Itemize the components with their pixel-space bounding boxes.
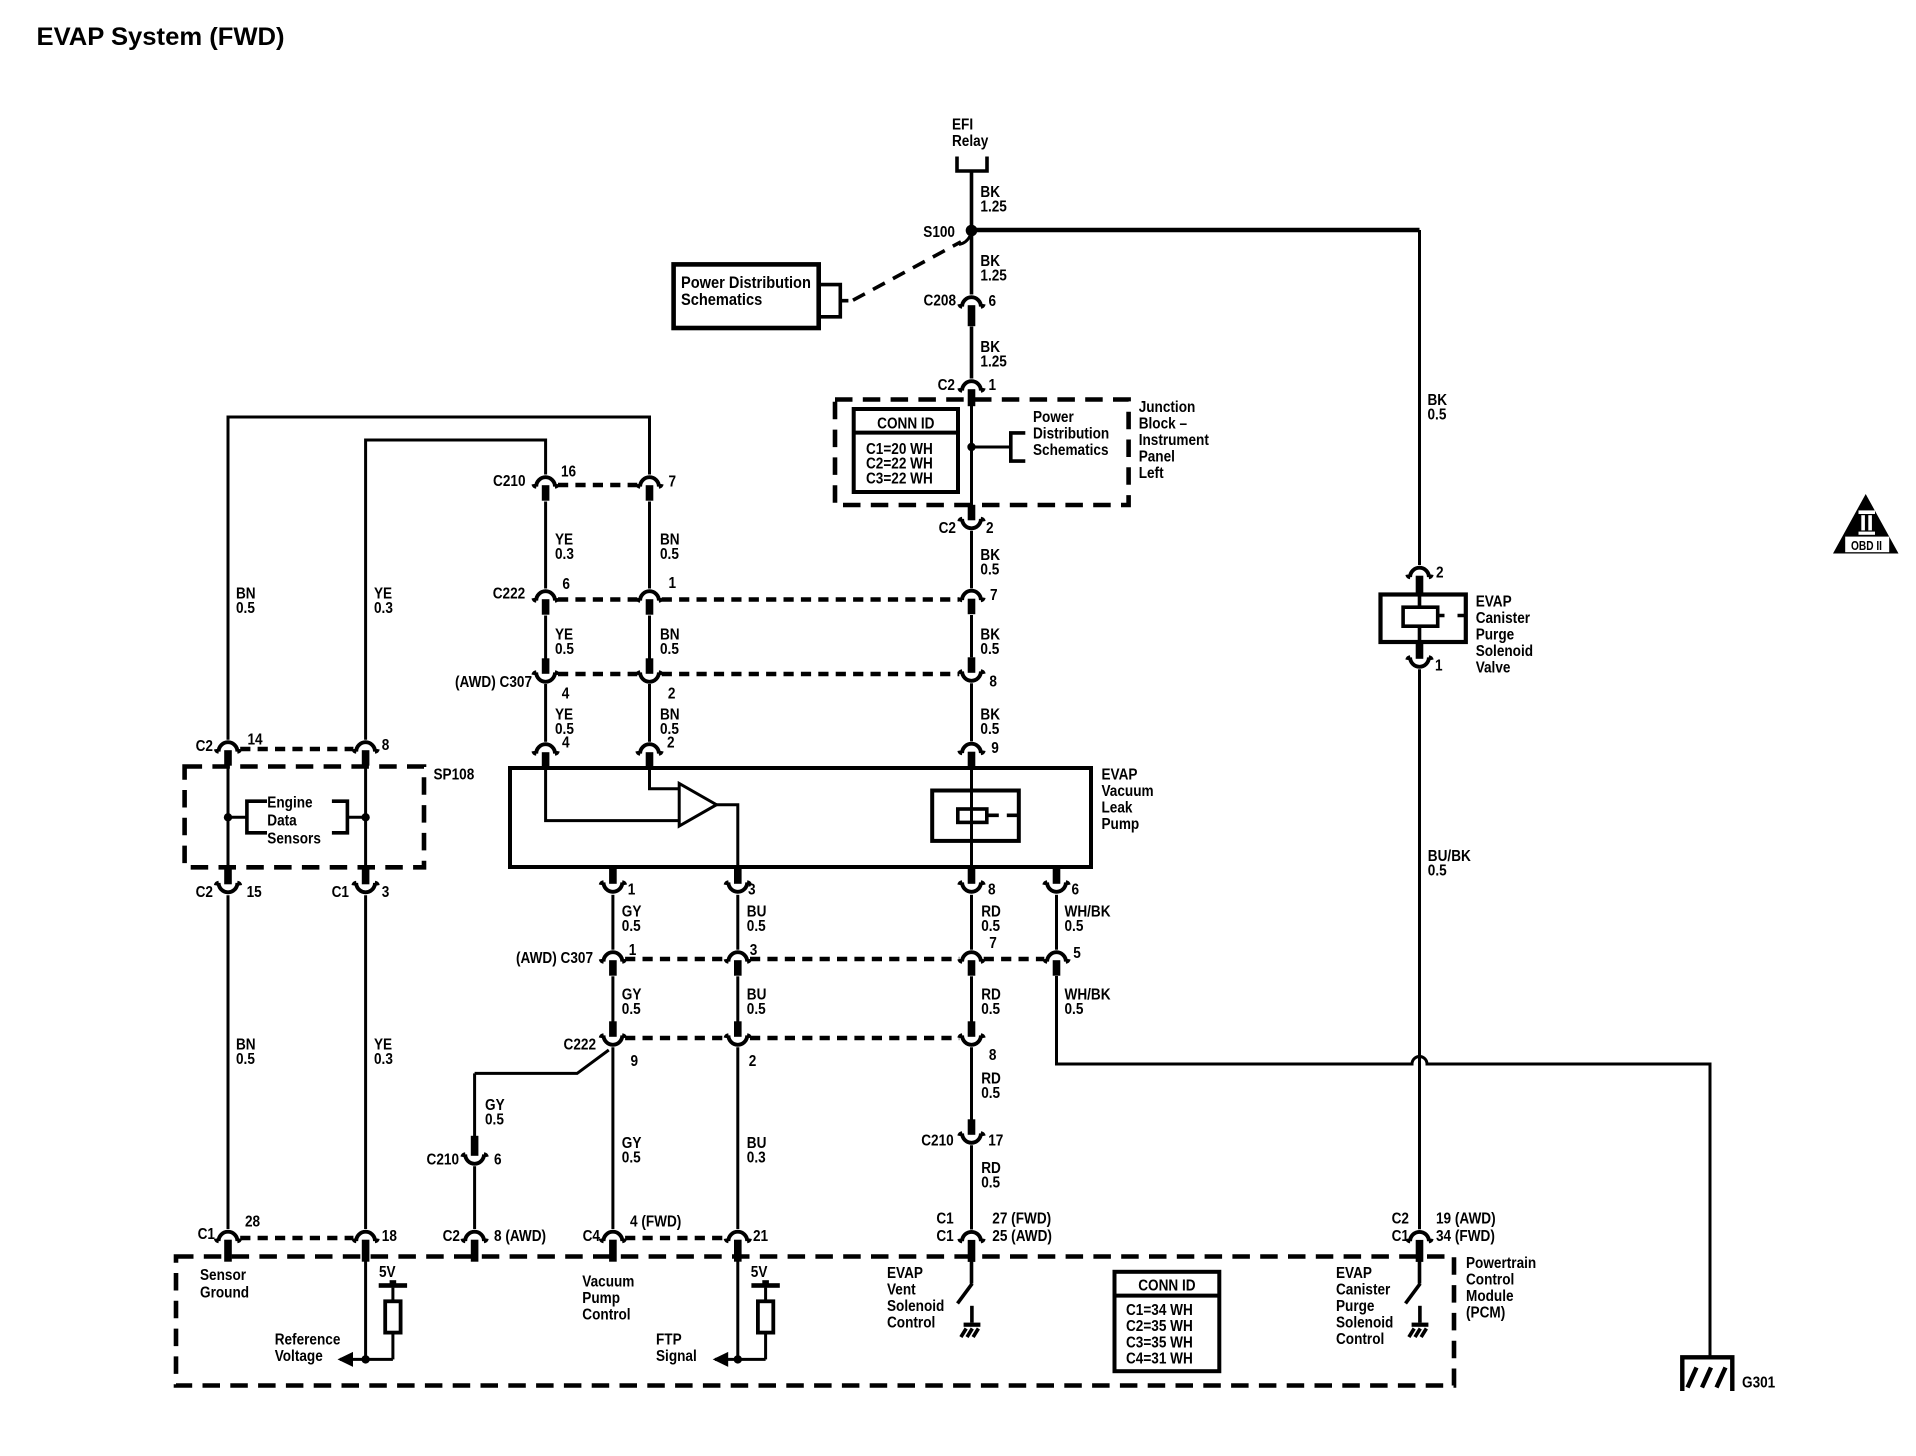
svg-text:C222: C222 <box>564 1037 596 1054</box>
svg-text:Ground: Ground <box>200 1285 249 1302</box>
svg-text:28: 28 <box>245 1214 260 1231</box>
svg-text:8: 8 <box>382 737 390 754</box>
svg-text:0.3: 0.3 <box>374 1051 393 1068</box>
svg-text:0.3: 0.3 <box>374 600 393 617</box>
svg-text:18: 18 <box>382 1228 397 1245</box>
svg-text:1.25: 1.25 <box>980 354 1006 371</box>
svg-text:0.5: 0.5 <box>236 1051 255 1068</box>
svg-text:Pump: Pump <box>1102 816 1140 833</box>
svg-text:Data: Data <box>267 813 297 830</box>
svg-text:C2: C2 <box>938 377 955 394</box>
svg-text:Schematics: Schematics <box>1033 442 1109 459</box>
svg-text:CONN ID: CONN ID <box>877 416 935 433</box>
svg-text:CONN ID: CONN ID <box>1138 1278 1196 1295</box>
svg-text:Control: Control <box>1336 1331 1384 1348</box>
svg-text:2: 2 <box>986 520 994 537</box>
svg-text:0.5: 0.5 <box>1428 863 1447 880</box>
svg-text:0.5: 0.5 <box>660 641 679 658</box>
svg-text:4: 4 <box>562 735 570 752</box>
svg-text:8 (AWD): 8 (AWD) <box>494 1228 546 1245</box>
svg-text:C1: C1 <box>936 1228 953 1245</box>
svg-text:0.5: 0.5 <box>1065 1001 1084 1018</box>
svg-text:Purge: Purge <box>1476 627 1514 644</box>
svg-text:Left: Left <box>1139 465 1164 482</box>
svg-text:Reference: Reference <box>275 1332 341 1349</box>
svg-text:C1: C1 <box>198 1226 215 1243</box>
svg-text:0.5: 0.5 <box>980 641 999 658</box>
svg-text:C4: C4 <box>583 1228 601 1245</box>
svg-text:0.5: 0.5 <box>980 562 999 579</box>
svg-text:Power Distribution: Power Distribution <box>681 274 811 292</box>
svg-text:0.3: 0.3 <box>555 546 574 563</box>
svg-text:1.25: 1.25 <box>980 199 1006 216</box>
svg-text:21: 21 <box>753 1228 768 1245</box>
svg-text:S100: S100 <box>923 224 955 241</box>
svg-text:C4=31 WH: C4=31 WH <box>1126 1351 1193 1368</box>
svg-text:C210: C210 <box>921 1133 953 1150</box>
svg-text:1: 1 <box>629 942 637 959</box>
svg-text:34 (FWD): 34 (FWD) <box>1436 1228 1495 1245</box>
svg-text:0.5: 0.5 <box>981 918 1000 935</box>
svg-text:1: 1 <box>989 377 997 394</box>
svg-text:C210: C210 <box>427 1152 459 1169</box>
svg-text:5: 5 <box>1073 945 1081 962</box>
svg-text:8: 8 <box>989 674 997 691</box>
svg-text:C2: C2 <box>196 884 213 901</box>
svg-text:Solenoid: Solenoid <box>1476 643 1533 660</box>
svg-text:Instrument: Instrument <box>1139 432 1209 449</box>
svg-text:6: 6 <box>562 576 570 593</box>
svg-text:Relay: Relay <box>952 133 989 150</box>
svg-text:C2=35 WH: C2=35 WH <box>1126 1318 1193 1335</box>
svg-text:14: 14 <box>248 732 264 749</box>
svg-text:3: 3 <box>748 882 756 899</box>
svg-text:Voltage: Voltage <box>275 1348 323 1365</box>
svg-text:EVAP: EVAP <box>1336 1265 1372 1282</box>
svg-text:C2: C2 <box>196 738 213 755</box>
svg-text:0.5: 0.5 <box>981 1175 1000 1192</box>
svg-text:4 (FWD): 4 (FWD) <box>630 1214 681 1231</box>
svg-text:Control: Control <box>582 1307 630 1324</box>
svg-text:15: 15 <box>247 884 262 901</box>
svg-text:Power: Power <box>1033 409 1074 426</box>
svg-text:G301: G301 <box>1742 1375 1775 1392</box>
svg-text:0.5: 0.5 <box>485 1112 504 1129</box>
svg-text:Canister: Canister <box>1476 610 1531 627</box>
svg-text:C2: C2 <box>443 1228 460 1245</box>
svg-text:2: 2 <box>668 686 676 703</box>
svg-text:25 (AWD): 25 (AWD) <box>992 1228 1052 1245</box>
svg-text:5V: 5V <box>751 1264 768 1281</box>
svg-text:0.5: 0.5 <box>622 918 641 935</box>
svg-text:C210: C210 <box>493 473 525 490</box>
svg-text:SP108: SP108 <box>434 767 475 784</box>
svg-text:0.5: 0.5 <box>747 1001 766 1018</box>
svg-text:0.5: 0.5 <box>622 1001 641 1018</box>
svg-text:C2: C2 <box>1392 1211 1409 1228</box>
svg-text:(AWD) C307: (AWD) C307 <box>516 950 593 967</box>
svg-text:C1: C1 <box>1392 1228 1409 1245</box>
svg-text:Schematics: Schematics <box>681 291 762 309</box>
svg-text:Distribution: Distribution <box>1033 426 1109 443</box>
svg-text:17: 17 <box>988 1133 1003 1150</box>
svg-text:0.5: 0.5 <box>236 600 255 617</box>
svg-text:EVAP: EVAP <box>1102 767 1138 784</box>
svg-text:Canister: Canister <box>1336 1282 1391 1299</box>
svg-text:19 (AWD): 19 (AWD) <box>1436 1211 1496 1228</box>
svg-text:16: 16 <box>561 464 576 481</box>
svg-text:0.5: 0.5 <box>1428 407 1447 424</box>
svg-text:4: 4 <box>562 686 570 703</box>
svg-text:C222: C222 <box>493 586 525 603</box>
svg-text:Purge: Purge <box>1336 1298 1374 1315</box>
svg-text:3: 3 <box>382 884 390 901</box>
svg-text:FTP: FTP <box>656 1332 682 1349</box>
svg-text:C3=22 WH: C3=22 WH <box>866 470 933 487</box>
svg-text:6: 6 <box>494 1152 502 1169</box>
svg-text:0.5: 0.5 <box>1065 918 1084 935</box>
svg-text:C1: C1 <box>332 884 349 901</box>
svg-text:EVAP: EVAP <box>887 1265 923 1282</box>
svg-text:0.3: 0.3 <box>747 1150 766 1167</box>
svg-text:EVAP: EVAP <box>1476 594 1512 611</box>
svg-text:1.25: 1.25 <box>980 268 1006 285</box>
svg-text:Vacuum: Vacuum <box>1102 783 1154 800</box>
svg-text:Engine: Engine <box>267 795 312 812</box>
svg-text:1: 1 <box>628 882 636 899</box>
svg-text:Panel: Panel <box>1139 449 1175 466</box>
svg-text:0.5: 0.5 <box>622 1150 641 1167</box>
svg-text:(AWD) C307: (AWD) C307 <box>455 674 532 691</box>
svg-text:2: 2 <box>749 1053 757 1070</box>
svg-text:2: 2 <box>1436 565 1444 582</box>
svg-text:0.5: 0.5 <box>981 1001 1000 1018</box>
svg-text:Sensor: Sensor <box>200 1267 246 1284</box>
svg-text:Leak: Leak <box>1102 800 1134 817</box>
svg-text:C2: C2 <box>939 520 956 537</box>
svg-text:0.5: 0.5 <box>981 1085 1000 1102</box>
svg-text:2: 2 <box>667 735 675 752</box>
svg-text:(PCM): (PCM) <box>1466 1305 1505 1322</box>
svg-text:7: 7 <box>989 935 997 952</box>
svg-text:C208: C208 <box>924 293 956 310</box>
svg-text:6: 6 <box>989 293 997 310</box>
svg-text:9: 9 <box>991 740 999 757</box>
svg-text:Vacuum: Vacuum <box>582 1274 634 1291</box>
svg-text:Solenoid: Solenoid <box>1336 1315 1393 1332</box>
svg-text:Pump: Pump <box>582 1290 620 1307</box>
svg-text:1: 1 <box>669 575 677 592</box>
svg-text:EFI: EFI <box>952 117 973 134</box>
svg-text:3: 3 <box>750 942 758 959</box>
svg-text:C1=34 WH: C1=34 WH <box>1126 1302 1193 1319</box>
svg-text:0.5: 0.5 <box>555 641 574 658</box>
svg-text:OBD II: OBD II <box>1851 539 1882 553</box>
svg-text:Control: Control <box>1466 1272 1514 1289</box>
svg-text:C1: C1 <box>936 1211 953 1228</box>
svg-text:5V: 5V <box>379 1264 396 1281</box>
svg-text:0.5: 0.5 <box>747 918 766 935</box>
svg-text:8: 8 <box>988 882 996 899</box>
svg-text:27 (FWD): 27 (FWD) <box>992 1211 1051 1228</box>
svg-text:7: 7 <box>990 587 998 604</box>
svg-text:Sensors: Sensors <box>267 831 321 848</box>
svg-text:7: 7 <box>669 474 677 491</box>
svg-text:Solenoid: Solenoid <box>887 1298 944 1315</box>
svg-text:C3=35 WH: C3=35 WH <box>1126 1334 1193 1351</box>
svg-text:EVAP System (FWD): EVAP System (FWD) <box>37 23 285 51</box>
svg-text:0.5: 0.5 <box>980 721 999 738</box>
svg-text:Vent: Vent <box>887 1282 916 1299</box>
svg-text:Control: Control <box>887 1315 935 1332</box>
svg-text:8: 8 <box>989 1047 997 1064</box>
svg-text:Junction: Junction <box>1139 399 1196 416</box>
svg-text:1: 1 <box>1435 658 1443 675</box>
svg-text:Powertrain: Powertrain <box>1466 1255 1536 1272</box>
svg-text:Signal: Signal <box>656 1348 697 1365</box>
svg-text:Module: Module <box>1466 1288 1514 1305</box>
svg-text:Block –: Block – <box>1139 416 1187 433</box>
svg-text:Valve: Valve <box>1476 660 1511 677</box>
svg-text:6: 6 <box>1072 882 1080 899</box>
svg-text:0.5: 0.5 <box>660 546 679 563</box>
svg-text:9: 9 <box>631 1053 639 1070</box>
